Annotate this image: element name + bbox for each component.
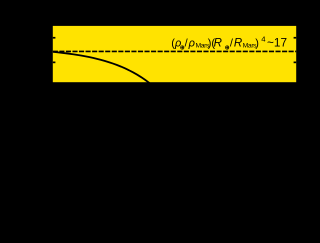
- solid decaying curve: [53, 52, 153, 86]
- right axis tick (upper): [294, 37, 297, 39]
- left axis tick (upper): [53, 37, 56, 39]
- svg-text:/RMars)4~17: /RMars)4~17: [230, 35, 287, 50]
- yellow band (shaded region): [53, 26, 296, 82]
- svg-text:(ρ: (ρ: [171, 38, 181, 50]
- left axis tick (lower): [53, 62, 56, 64]
- right axis tick (lower): [294, 62, 297, 64]
- dashed horizontal line at ratio ~17: [53, 50, 296, 52]
- label symbol: Earth subscript (circled plus) 1: [181, 46, 184, 49]
- label symbol: Earth subscript (circled plus) 2: [226, 46, 229, 49]
